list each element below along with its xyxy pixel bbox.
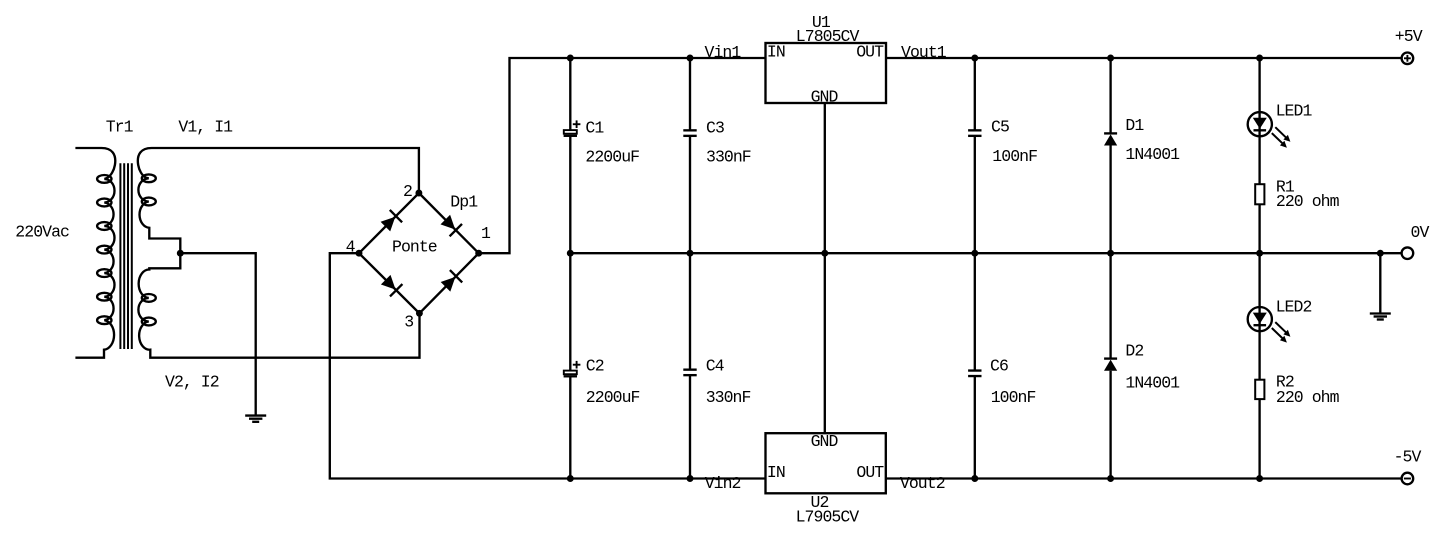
- svg-text:OUT: OUT: [856, 463, 884, 482]
- svg-text:Dp1: Dp1: [450, 193, 478, 212]
- svg-text:-5V: -5V: [1394, 448, 1422, 467]
- svg-text:220 ohm: 220 ohm: [1276, 192, 1340, 211]
- svg-text:3: 3: [404, 313, 413, 332]
- svg-text:Vin1: Vin1: [705, 43, 742, 62]
- svg-text:GND: GND: [811, 88, 839, 107]
- svg-text:C6: C6: [990, 356, 1008, 375]
- svg-text:L7905CV: L7905CV: [796, 508, 860, 527]
- svg-text:330nF: 330nF: [706, 388, 751, 407]
- svg-text:100nF: 100nF: [992, 147, 1037, 166]
- svg-text:V2, I2: V2, I2: [165, 373, 219, 392]
- svg-text:D2: D2: [1125, 342, 1143, 361]
- svg-text:+5V: +5V: [1395, 27, 1423, 46]
- svg-text:OUT: OUT: [856, 43, 884, 62]
- svg-text:2200uF: 2200uF: [586, 388, 640, 407]
- svg-text:1: 1: [481, 224, 491, 243]
- svg-text:C2: C2: [586, 357, 604, 376]
- svg-text:330nF: 330nF: [706, 148, 751, 167]
- svg-text:4: 4: [346, 237, 356, 256]
- svg-text:D1: D1: [1125, 116, 1144, 135]
- svg-text:C3: C3: [706, 119, 724, 138]
- svg-text:Vout1: Vout1: [901, 43, 947, 62]
- svg-text:C4: C4: [706, 357, 725, 376]
- svg-text:100nF: 100nF: [991, 388, 1036, 407]
- svg-text:IN: IN: [767, 43, 785, 62]
- svg-text:0V: 0V: [1411, 223, 1430, 242]
- svg-text:220 ohm: 220 ohm: [1276, 388, 1340, 407]
- svg-text:IN: IN: [767, 463, 785, 482]
- svg-text:L7805CV: L7805CV: [796, 27, 860, 46]
- svg-text:2200uF: 2200uF: [585, 148, 639, 167]
- svg-text:Vout2: Vout2: [900, 474, 945, 493]
- svg-text:GND: GND: [811, 432, 839, 451]
- svg-text:220Vac: 220Vac: [15, 223, 69, 242]
- svg-text:LED2: LED2: [1276, 298, 1312, 317]
- svg-text:Ponte: Ponte: [392, 238, 437, 257]
- svg-text:LED1: LED1: [1276, 102, 1313, 121]
- svg-text:Tr1: Tr1: [106, 118, 134, 137]
- svg-text:2: 2: [403, 182, 412, 201]
- svg-text:1N4001: 1N4001: [1125, 374, 1180, 393]
- svg-text:C1: C1: [585, 119, 604, 138]
- svg-text:1N4001: 1N4001: [1125, 145, 1180, 164]
- svg-text:V1, I1: V1, I1: [178, 118, 233, 137]
- svg-text:Vin2: Vin2: [705, 474, 741, 493]
- svg-text:C5: C5: [991, 118, 1009, 137]
